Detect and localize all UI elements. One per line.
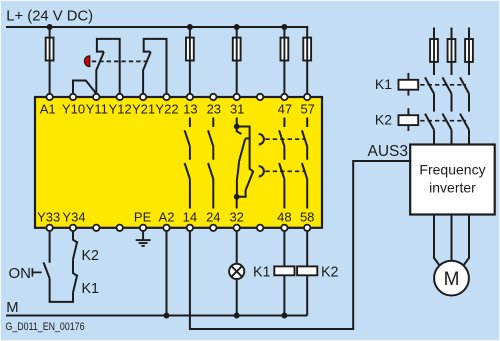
contactor K2 contact L2 xyxy=(443,114,452,145)
terminal Y22 xyxy=(163,94,169,100)
svg-text:Y34: Y34 xyxy=(62,210,85,225)
mechanical link dashed relay 2 xyxy=(265,170,305,172)
svg-text:M: M xyxy=(6,300,18,316)
svg-text:Y10: Y10 xyxy=(62,102,85,117)
wire M rail xyxy=(6,315,307,317)
terminal Y11 xyxy=(93,94,99,100)
actuator arc relay 2 xyxy=(259,166,264,176)
svg-text:PE: PE xyxy=(134,210,152,225)
terminal 31 xyxy=(234,94,240,100)
terminal 32 xyxy=(234,225,240,231)
mechanical link dashed relay 1 xyxy=(265,138,305,140)
junction dot K1/M xyxy=(281,313,287,319)
svg-text:ON: ON xyxy=(9,265,32,282)
wire 58 to M rail xyxy=(306,231,308,316)
fuse F7 xyxy=(448,39,456,62)
terminal labels bottom row xyxy=(37,210,314,225)
svg-text:47: 47 xyxy=(278,102,292,117)
svg-text:31: 31 xyxy=(230,102,244,117)
svg-text:Y12: Y12 xyxy=(109,102,132,117)
svg-text:13: 13 xyxy=(183,102,197,117)
wire 31 supply xyxy=(236,27,238,97)
emergency stop contact 2 blade (Y21) xyxy=(143,52,151,97)
terminal 23 xyxy=(210,94,216,100)
wire jumper Y10-Y11 xyxy=(73,81,96,98)
svg-text:A2: A2 xyxy=(159,210,175,225)
junction dot lamp/M xyxy=(234,313,240,319)
svg-text:24: 24 xyxy=(206,210,220,225)
terminal A1 xyxy=(46,94,52,100)
svg-text:K2: K2 xyxy=(375,111,392,127)
emergency stop contact 2 fixed side (Y22) xyxy=(144,39,167,97)
coil K2 xyxy=(297,266,317,275)
svg-text:K2: K2 xyxy=(82,248,100,264)
ON button actuator xyxy=(32,268,41,276)
svg-text:K1: K1 xyxy=(253,265,271,281)
svg-text:M: M xyxy=(444,269,460,290)
wire ON bottom loop xyxy=(50,278,73,302)
mechanical link dashed (e-stop) xyxy=(92,60,147,62)
coil K1 xyxy=(274,266,294,275)
wire 32 to lamp xyxy=(236,231,238,264)
fuse F1 xyxy=(46,38,54,61)
safety relay module box xyxy=(35,97,322,228)
svg-text:inverter: inverter xyxy=(429,180,476,196)
wire inverter output V xyxy=(451,215,453,261)
svg-text:32: 32 xyxy=(229,210,243,225)
svg-text:Y11: Y11 xyxy=(86,102,108,117)
wire phase L1 xyxy=(433,28,435,76)
junction dot 31/L+ xyxy=(234,24,240,30)
svg-text:L+ (24 V DC): L+ (24 V DC) xyxy=(6,9,93,25)
wire Y33 to ON button xyxy=(49,231,51,263)
contactor K2 drive xyxy=(399,108,419,131)
wire 48 to M rail xyxy=(283,231,285,316)
mechanical link dashed K2 xyxy=(420,120,466,122)
terminal 13 xyxy=(187,94,193,100)
svg-text:Y21: Y21 xyxy=(132,102,155,117)
fuse F5 xyxy=(303,38,311,61)
feedback contact 31-32 chain xyxy=(237,118,254,209)
fuse F8 xyxy=(465,39,473,62)
wire phase L2 xyxy=(451,28,453,76)
svg-text:K1: K1 xyxy=(375,76,392,92)
svg-text:A1: A1 xyxy=(40,102,56,117)
terminal A2 xyxy=(163,225,169,231)
junction dot 13/L+ xyxy=(187,24,193,30)
contactor K1 drive xyxy=(399,73,419,96)
junction dot A1/L+ xyxy=(47,24,53,30)
actuator arc relay 1 xyxy=(259,134,264,144)
emergency stop contact 1 blade (Y11) xyxy=(96,52,104,97)
auxiliary contact K2 (NC) xyxy=(73,231,77,259)
safety contact 57-58 xyxy=(302,118,307,209)
svg-text:58: 58 xyxy=(300,210,314,225)
svg-text:23: 23 xyxy=(207,102,221,117)
junction dot 47/L+ xyxy=(281,24,287,30)
wire phase L3 xyxy=(468,28,470,76)
terminal 47 xyxy=(281,94,287,100)
auxiliary contact K1 (NC) xyxy=(73,259,77,292)
terminal 24 xyxy=(210,225,216,231)
terminal PE xyxy=(140,225,146,231)
svg-text:48: 48 xyxy=(277,210,291,225)
terminal Y33 xyxy=(46,225,52,231)
mechanical link dashed K1 xyxy=(420,84,466,86)
junction dot node 31 xyxy=(234,124,240,130)
svg-text:57: 57 xyxy=(300,102,314,117)
svg-text:Y33: Y33 xyxy=(37,210,60,225)
safety contact 13-14 xyxy=(185,118,190,209)
ground symbol PE xyxy=(136,231,151,246)
svg-text:14: 14 xyxy=(183,210,197,225)
wire L+ rail xyxy=(6,27,307,97)
svg-text:G_D011_EN_00176: G_D011_EN_00176 xyxy=(6,321,85,333)
contactor K2 contact L3 xyxy=(460,114,469,145)
wire 14 to AUS3 input xyxy=(190,161,410,329)
terminal Y34 xyxy=(70,225,76,231)
emergency stop mushroom button xyxy=(84,56,89,67)
motor M xyxy=(434,261,469,296)
contactor K1 contact L1 xyxy=(425,77,434,111)
terminal unlabeled b1 xyxy=(93,225,99,231)
svg-text:K2: K2 xyxy=(321,265,339,281)
fuse F4 xyxy=(281,38,289,61)
indicator lamp xyxy=(229,264,244,279)
wire 13 supply xyxy=(189,27,191,97)
terminal circles top row xyxy=(46,94,310,100)
wire 47 supply xyxy=(283,27,285,97)
wire A2 to M rail xyxy=(166,231,168,316)
frequency inverter box xyxy=(410,145,495,215)
terminal 57 xyxy=(304,94,310,100)
contactor K1 contact L2 xyxy=(443,77,452,111)
svg-text:K1: K1 xyxy=(82,281,100,297)
svg-text:AUS3: AUS3 xyxy=(368,143,409,160)
terminal 58 xyxy=(304,225,310,231)
fuse F6 xyxy=(430,39,438,62)
terminal unlabeled b3 xyxy=(257,225,263,231)
wire lamp to M rail xyxy=(236,279,238,316)
terminal circles bottom row xyxy=(46,225,310,231)
fuse F3 xyxy=(233,38,241,61)
junction dot A2/M xyxy=(164,313,170,319)
svg-text:Frequency: Frequency xyxy=(419,162,485,178)
terminal Y10 xyxy=(70,94,76,100)
terminal unlabeled top xyxy=(257,94,263,100)
terminal Y21 xyxy=(140,94,146,100)
terminal Y12 xyxy=(117,94,123,100)
terminal unlabeled b2 xyxy=(117,225,123,231)
ON button blade xyxy=(44,262,50,278)
fuse F2 xyxy=(186,38,194,61)
wire inverter output U xyxy=(434,215,439,266)
contactor K1 contact L3 xyxy=(460,77,469,111)
wire A1 supply xyxy=(49,27,51,97)
terminal 48 xyxy=(281,225,287,231)
wire inverter output W xyxy=(464,215,469,266)
contactor K2 contact L1 xyxy=(425,114,434,145)
junction dot node 32 xyxy=(234,194,240,200)
safety contact 23-24 xyxy=(208,118,213,209)
terminal 14 xyxy=(187,225,193,231)
terminal labels top row xyxy=(40,102,315,117)
svg-text:Y22: Y22 xyxy=(155,102,178,117)
emergency stop contact 1 fixed side (Y12) xyxy=(97,39,120,97)
safety contact 47-48 xyxy=(279,118,284,209)
